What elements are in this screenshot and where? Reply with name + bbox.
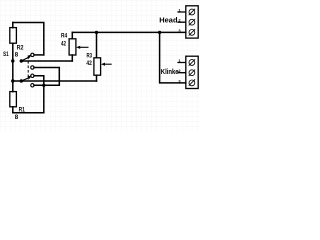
svg-text:Head: Head <box>159 15 178 24</box>
switch S1 pole1 wiper arm <box>21 55 32 61</box>
junction R3 top / main net <box>95 31 98 34</box>
connector Klinke pin 1 and 2 leads <box>177 63 185 73</box>
switch S1 pole1 upper throw contact <box>31 53 34 56</box>
junction rail/pole2 common <box>11 79 14 82</box>
wire left rail R2 to R1 <box>12 61 14 92</box>
svg-text:42: 42 <box>86 60 92 67</box>
junction pole2 pivot <box>20 79 23 82</box>
wire pole2 upper throw down to R1 loop <box>34 76 44 113</box>
connector Head body <box>186 6 198 38</box>
junction lower throws / R1 loop <box>42 84 45 87</box>
wire main top net to Head pin3 <box>72 31 186 33</box>
wire from R2 top over to pole1 upper throw (net loop) <box>13 23 44 55</box>
svg-text:Klinke: Klinke <box>161 67 179 76</box>
svg-text:R1: R1 <box>19 106 26 113</box>
wire pole2 common line to R3 bottom <box>13 80 97 82</box>
switch S1 mechanical coupling dashed line <box>27 57 29 80</box>
svg-text:R3: R3 <box>87 52 93 59</box>
wire R1 bottom lead <box>12 107 14 113</box>
svg-text:R4: R4 <box>61 32 68 39</box>
connector Head pin circles with slashes <box>189 9 195 36</box>
resistor R3 <box>94 58 101 75</box>
trimmer wiper arrow R3 <box>101 63 112 66</box>
wire pole1 upper throw <box>34 54 44 56</box>
junction pole1 pivot <box>20 59 23 62</box>
wire pole1 lower throw to pole2 lower throw <box>34 68 59 86</box>
trimmer wiper arrow R4 <box>76 46 88 49</box>
wire R2 leads <box>12 23 14 62</box>
resistor R2 <box>10 28 17 44</box>
svg-text:S1: S1 <box>3 51 9 58</box>
wire R4 leads <box>71 32 73 61</box>
wire R3 leads <box>96 32 98 81</box>
resistor R1 <box>10 92 17 107</box>
connector Head pin 1 and 2 leads <box>177 12 185 22</box>
switch S1 pole2 upper throw contact <box>31 74 34 77</box>
wire pole1 common to R4 bottom <box>21 60 72 62</box>
wire R1 bottom loop <box>13 112 44 114</box>
connector Klinke pin circles with slashes <box>189 59 195 86</box>
switch S1 pole1 lower throw contact <box>31 66 34 69</box>
svg-text:42: 42 <box>61 41 66 48</box>
resistor R4 <box>69 39 76 55</box>
switch S1 pole2 wiper arm <box>21 76 32 82</box>
junction rail/pole1 common <box>11 59 14 62</box>
switch S1 pole2 lower throw contact <box>31 84 34 87</box>
connector Klinke body <box>186 56 198 88</box>
wire main net down to Klinke pin3 <box>160 32 186 83</box>
junction Klinke branch / main net <box>158 31 161 34</box>
svg-text:8: 8 <box>15 114 19 121</box>
